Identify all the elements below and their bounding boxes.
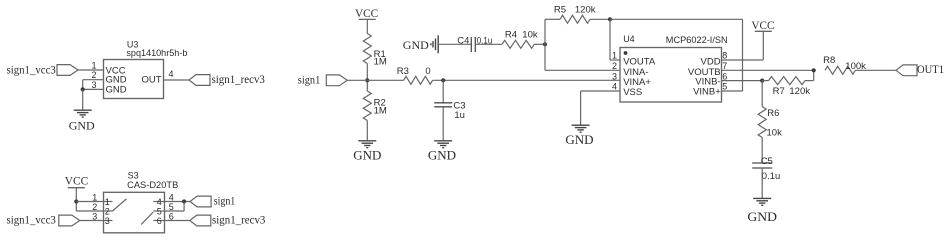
wire C3 to ground xyxy=(442,107,444,141)
wire node up to R5 and down to pin2 xyxy=(544,19,546,70)
junction sign1 node xyxy=(365,78,369,82)
wire U4 pin4 VSS xyxy=(581,90,620,92)
svg-text:3: 3 xyxy=(92,211,97,221)
svg-text:4: 4 xyxy=(612,82,617,92)
U4 pin1 marker xyxy=(624,51,628,55)
svg-text:0.1u: 0.1u xyxy=(762,171,781,182)
svg-text:C4: C4 xyxy=(457,36,469,47)
svg-text:3: 3 xyxy=(91,80,96,90)
svg-text:CAS-D20TB: CAS-D20TB xyxy=(127,180,178,191)
port sign1_recv3 xyxy=(189,75,210,86)
wire R1 to R2 xyxy=(366,64,368,92)
wire node to R3 xyxy=(367,79,403,81)
resistor R4 xyxy=(502,40,534,48)
svg-text:GND: GND xyxy=(747,209,777,224)
wire C4 to R4 xyxy=(475,43,502,45)
S3 pin5 inner stub xyxy=(153,210,164,212)
wire VCC to R1 xyxy=(366,19,368,33)
wire gnd to C4 xyxy=(438,43,471,45)
svg-text:8: 8 xyxy=(722,51,727,61)
svg-text:VINB+: VINB+ xyxy=(693,87,721,98)
svg-text:VCC: VCC xyxy=(65,173,88,187)
svg-text:2: 2 xyxy=(612,61,617,71)
U3 body xyxy=(104,60,164,99)
S3 pin2 inner stub xyxy=(104,210,113,212)
svg-text:6: 6 xyxy=(722,71,727,81)
svg-text:GND: GND xyxy=(106,84,127,95)
resistor R2 xyxy=(363,91,371,121)
junction U3 gnd node xyxy=(81,87,85,91)
junction VCC to pins 1-2 xyxy=(74,199,78,203)
svg-text:1M: 1M xyxy=(374,57,387,68)
svg-text:MCP6022-I/SN: MCP6022-I/SN xyxy=(666,35,728,46)
S3 pin3 inner stub xyxy=(104,220,113,222)
svg-text:1M: 1M xyxy=(374,105,387,116)
S3 right switch blade xyxy=(141,212,153,224)
svg-text:R8: R8 xyxy=(823,55,835,66)
wire down to pin5 xyxy=(742,19,744,91)
svg-text:4: 4 xyxy=(169,192,174,202)
svg-text:sign1: sign1 xyxy=(214,194,236,208)
wire to U4 pin5 xyxy=(722,90,743,92)
svg-text:1: 1 xyxy=(92,192,97,202)
svg-text:VSS: VSS xyxy=(623,87,642,98)
S3 pin6 inner stub xyxy=(153,220,164,222)
wire U3 pin2 stub xyxy=(83,79,104,81)
svg-text:2: 2 xyxy=(91,70,96,80)
wire S3 pin6 to port xyxy=(165,220,190,222)
svg-text:3: 3 xyxy=(105,216,110,226)
wire VOUTA to VINB+ top run xyxy=(610,18,743,20)
wire R7 to corner xyxy=(805,80,814,82)
svg-text:120k: 120k xyxy=(575,4,596,15)
VCC power bar U4 xyxy=(755,30,772,32)
U4 body xyxy=(620,48,722,103)
junction R7/R8 node xyxy=(812,68,816,72)
ground symbol R2 xyxy=(358,141,376,148)
svg-text:sign1: sign1 xyxy=(298,73,321,87)
svg-text:GND: GND xyxy=(403,38,429,52)
wire pin4 down to pin5 xyxy=(183,202,185,212)
wire sign1_vcc3 to U3 pin1 xyxy=(78,69,104,71)
svg-text:GND: GND xyxy=(428,148,456,163)
wire VSS down to ground xyxy=(580,91,582,125)
svg-text:R6: R6 xyxy=(767,108,779,119)
wire node to C3 xyxy=(442,80,444,103)
svg-text:4: 4 xyxy=(157,197,162,207)
svg-text:GND: GND xyxy=(353,148,381,163)
ground symbol C5 xyxy=(753,198,771,205)
port sign1_vcc3 xyxy=(57,65,78,76)
wire R6 to C5 xyxy=(761,138,763,164)
svg-text:10k: 10k xyxy=(522,30,538,41)
svg-text:GND: GND xyxy=(69,118,95,132)
svg-text:6: 6 xyxy=(169,211,174,221)
port sign1_vcc3 (S3) xyxy=(59,215,80,226)
svg-text:R3: R3 xyxy=(397,66,409,77)
wire to S3 pin3 xyxy=(80,220,104,222)
wire VOUTB to R8 node xyxy=(722,69,814,71)
svg-text:120k: 120k xyxy=(789,86,810,97)
S3 body xyxy=(104,192,165,233)
wire R3 to U4 pin3 xyxy=(433,79,620,81)
svg-text:S3: S3 xyxy=(128,171,139,181)
S3 pin4 inner stub xyxy=(153,201,164,203)
wire R4 to node xyxy=(534,43,545,45)
svg-text:2: 2 xyxy=(105,207,110,217)
svg-text:OUT1: OUT1 xyxy=(917,62,944,76)
port sign1 xyxy=(326,75,347,86)
wire to S3 pin5 xyxy=(165,210,185,212)
capacitor C4 xyxy=(471,37,475,52)
wire VCC down to VDD xyxy=(762,31,764,60)
wire to U4 pin1 xyxy=(610,59,620,61)
port sign1 (S3) xyxy=(190,196,211,207)
wire U3 pin4 to port xyxy=(164,79,190,81)
resistor R7 xyxy=(769,77,806,85)
resistor R3 xyxy=(404,76,433,84)
junction R5 output node xyxy=(608,17,612,21)
wire S3 pin4 to port xyxy=(165,201,191,203)
wire U3 pin3 stub xyxy=(83,88,104,90)
port sign1_recv3 (S3) xyxy=(190,215,211,226)
svg-text:4: 4 xyxy=(168,69,173,79)
wire to S3 pin2 xyxy=(76,210,103,212)
wire R2 to ground xyxy=(366,121,368,141)
svg-text:VCC: VCC xyxy=(355,6,378,20)
VCC power bar R1 xyxy=(359,18,376,20)
resistor R1 xyxy=(363,34,371,64)
svg-text:sign1_vcc3: sign1_vcc3 xyxy=(7,62,56,76)
wire to R5 xyxy=(545,18,560,20)
svg-text:6: 6 xyxy=(157,216,162,226)
wire down to ground xyxy=(82,89,84,110)
svg-text:7: 7 xyxy=(722,61,727,71)
junction C3 node xyxy=(441,78,445,82)
svg-text:5: 5 xyxy=(169,202,174,212)
svg-text:R7: R7 xyxy=(773,86,785,97)
svg-text:5: 5 xyxy=(722,82,727,92)
wire to S3 pin1 xyxy=(76,201,103,203)
svg-text:sign1_recv3: sign1_recv3 xyxy=(212,213,265,227)
wire down to U4 pin1 xyxy=(609,19,611,60)
junction R4/R5 node xyxy=(543,42,547,46)
svg-text:GND: GND xyxy=(565,132,593,147)
junction VINB- node xyxy=(760,79,764,83)
capacitor C3 xyxy=(434,103,452,107)
capacitor C5 xyxy=(752,163,772,168)
svg-text:VOUTA: VOUTA xyxy=(623,57,656,68)
wire VINB- to node xyxy=(722,80,763,82)
resistor R6 xyxy=(758,107,766,138)
resistor R8 xyxy=(825,66,855,74)
svg-text:1: 1 xyxy=(105,197,110,207)
ground symbol VSS xyxy=(572,125,590,132)
svg-text:3: 3 xyxy=(612,71,617,81)
wire node to R7 xyxy=(762,80,768,82)
wire to U4 pin2 xyxy=(545,69,620,71)
ground symbol C3 xyxy=(434,141,452,148)
svg-text:sign1_vcc3: sign1_vcc3 xyxy=(7,213,56,227)
S3 left switch blade xyxy=(113,199,127,211)
svg-text:VDD: VDD xyxy=(701,56,721,67)
svg-text:0: 0 xyxy=(425,66,430,77)
svg-text:R5: R5 xyxy=(554,4,566,15)
wire C5 to ground xyxy=(761,168,763,198)
VCC power bar S3 xyxy=(68,187,85,189)
wire R8 to OUT1 xyxy=(855,69,896,71)
svg-text:OUT: OUT xyxy=(141,75,161,86)
svg-text:1: 1 xyxy=(91,61,96,71)
svg-text:5: 5 xyxy=(157,207,162,217)
wire R5 to node xyxy=(590,18,610,20)
ground symbol C4 (left) xyxy=(431,35,438,53)
svg-text:C5: C5 xyxy=(761,156,773,167)
wire node to R6 xyxy=(761,81,763,107)
S3 pin1 inner stub xyxy=(104,201,113,203)
svg-text:U4: U4 xyxy=(623,34,635,44)
ground symbol U3 xyxy=(74,110,92,117)
svg-text:1u: 1u xyxy=(454,110,465,121)
svg-text:spq1410hr5h-b: spq1410hr5h-b xyxy=(126,48,187,58)
svg-text:sign1_recv3: sign1_recv3 xyxy=(212,72,265,86)
svg-text:0.1u: 0.1u xyxy=(477,36,493,47)
wire sign1 port to node xyxy=(347,79,367,81)
resistor R5 xyxy=(560,15,590,23)
svg-text:2: 2 xyxy=(92,202,97,212)
wire pin2 down to pin3 xyxy=(82,80,84,90)
svg-text:R4: R4 xyxy=(505,30,517,41)
junction pins 4-5 xyxy=(182,199,186,203)
svg-text:1: 1 xyxy=(612,51,617,61)
wire VCC down xyxy=(75,188,77,211)
svg-text:VCC: VCC xyxy=(751,18,774,32)
svg-text:10k: 10k xyxy=(767,128,783,139)
wire R7 up to VOUTB line xyxy=(813,70,815,80)
wire U4 pin8 VDD xyxy=(722,59,764,61)
port OUT1 xyxy=(896,65,917,76)
